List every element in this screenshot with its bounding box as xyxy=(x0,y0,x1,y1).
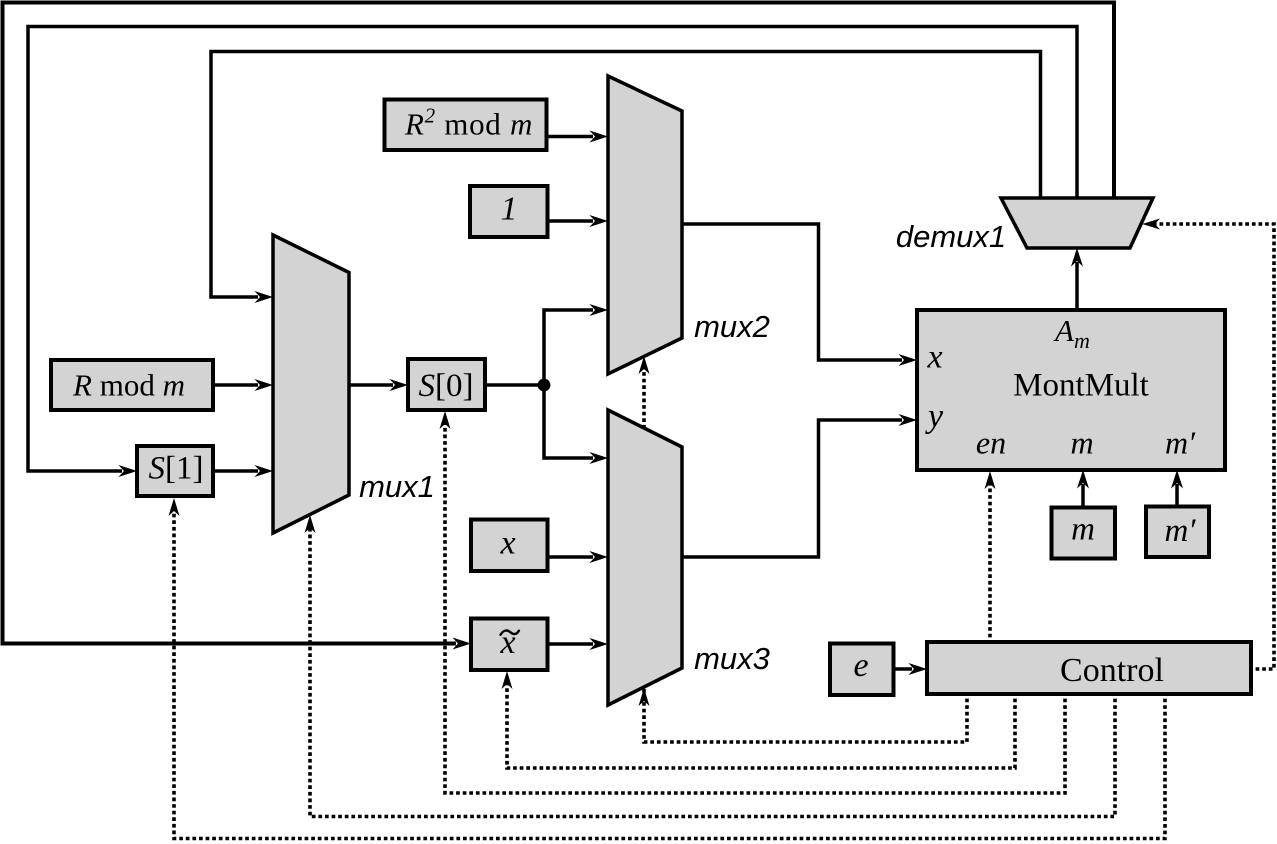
register m-prime xyxy=(1146,507,1209,558)
svg-text:m: m xyxy=(1071,512,1095,548)
wire control to S[0] register enable (dotted) xyxy=(445,420,1065,793)
wire demux1 out to S[1] (middle feedback loop) xyxy=(28,27,1077,472)
wire x to mux3 xyxy=(547,555,593,559)
wire demux1 out to x-tilde (outer feedback loop) xyxy=(3,3,1115,644)
svg-text:R mod m: R mod m xyxy=(72,368,185,403)
svg-text:1: 1 xyxy=(501,191,518,228)
register S[1] xyxy=(137,446,213,496)
wire control to mux1 select (dotted) xyxy=(310,524,1115,817)
svg-text:mux1: mux1 xyxy=(359,469,435,504)
svg-text:en: en xyxy=(976,425,1006,461)
wire junction to mux2 xyxy=(544,310,593,385)
svg-text:mux2: mux2 xyxy=(694,309,770,344)
wire junction to mux3 xyxy=(544,385,593,458)
block MontMult xyxy=(917,310,1225,470)
wire demux1 out to mux1 (inner feedback loop) xyxy=(211,52,1041,298)
svg-text:mux3: mux3 xyxy=(694,641,770,676)
mux mux1 xyxy=(273,235,349,533)
wire m-prime to MontMult xyxy=(1175,484,1179,506)
register S[0] xyxy=(408,359,485,410)
wire e to Control xyxy=(893,667,912,671)
register x xyxy=(471,520,548,572)
svg-text:Control: Control xyxy=(1060,652,1164,689)
svg-text:MontMult: MontMult xyxy=(1013,368,1149,404)
wire const1 to mux2 xyxy=(547,219,593,223)
register e xyxy=(830,644,894,696)
constant 1 box xyxy=(470,186,548,237)
wire S[1] to mux1 xyxy=(213,469,258,473)
svg-text:demux1: demux1 xyxy=(896,219,1006,254)
svg-text:y: y xyxy=(925,398,944,435)
wire x-tilde to mux3 xyxy=(547,642,593,646)
wire Rmodm to mux1 xyxy=(213,383,258,387)
svg-text:m′: m′ xyxy=(1164,513,1196,549)
svg-text:m: m xyxy=(1070,425,1093,461)
wire mux3 to MontMult y xyxy=(682,420,902,557)
svg-text:R2 mod m: R2 mod m xyxy=(404,104,533,142)
register x-tilde xyxy=(471,619,548,671)
wire mux1 to S[0] xyxy=(349,383,393,387)
register m xyxy=(1052,508,1116,559)
register R2modm xyxy=(385,100,547,151)
svg-text:x: x xyxy=(926,339,942,376)
mux mux3 xyxy=(608,410,682,705)
wire m to MontMult xyxy=(1081,484,1085,507)
wire control to x-tilde register enable (dotted) xyxy=(507,680,1015,768)
register Rmodm xyxy=(51,360,213,410)
svg-text:S[1]: S[1] xyxy=(149,451,204,487)
wire control to S[1] register enable (dotted) xyxy=(174,507,1165,839)
demux demux1 xyxy=(1001,198,1153,248)
svg-text:S[0]: S[0] xyxy=(419,368,474,404)
wire control to MontMult en (dotted) xyxy=(988,480,992,644)
wire S[0] to junction xyxy=(485,383,544,387)
node junction at S[0] output xyxy=(538,379,551,392)
wire control to mux3 and mux2 select (dotted) xyxy=(644,366,967,742)
mux mux2 xyxy=(608,76,682,374)
wire mux2 to MontMult x xyxy=(682,224,902,360)
svg-text:x: x xyxy=(499,525,515,562)
wire control to demux1 select (dotted) xyxy=(1152,224,1274,669)
svg-text:e: e xyxy=(853,647,868,684)
svg-text:m′: m′ xyxy=(1165,425,1196,461)
wire R2modm to mux2 xyxy=(547,135,593,139)
block Control xyxy=(927,642,1251,694)
wire MontMult Am to demux1 xyxy=(1075,262,1079,310)
